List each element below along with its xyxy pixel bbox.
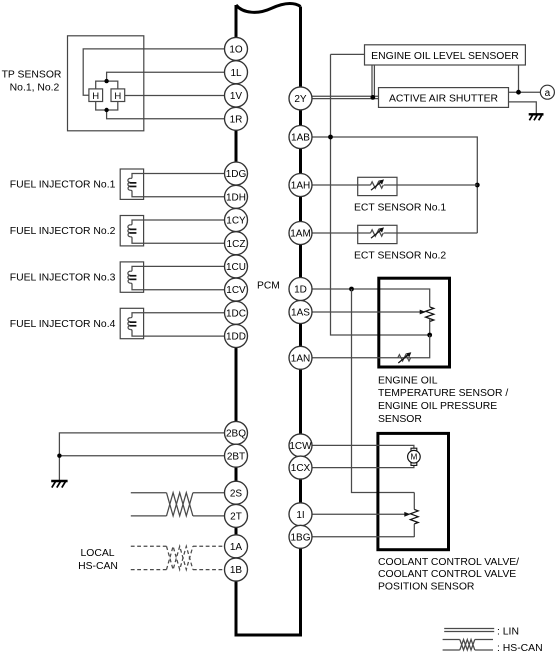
svg-text:1CZ: 1CZ bbox=[227, 239, 246, 250]
fuel injector No.2 box bbox=[120, 216, 143, 246]
PCM module body bbox=[235, 3, 303, 635]
wire engine oil level sensor left stub bbox=[331, 53, 365, 55]
hall element H No.1 bbox=[89, 89, 103, 102]
hall element H No.2 bbox=[111, 89, 125, 102]
svg-text:2Y: 2Y bbox=[294, 94, 307, 105]
svg-text:1AN: 1AN bbox=[291, 353, 310, 364]
pin 1D bbox=[289, 278, 312, 301]
svg-text:2T: 2T bbox=[230, 512, 242, 523]
pin 1L bbox=[225, 61, 248, 84]
wire 2BT to ground bbox=[59, 456, 224, 481]
svg-text:FUEL INJECTOR No.2: FUEL INJECTOR No.2 bbox=[10, 226, 116, 237]
svg-text:H: H bbox=[114, 91, 121, 102]
svg-text:: LIN: : LIN bbox=[497, 626, 519, 637]
motor M1 bbox=[408, 448, 421, 465]
pin 1B bbox=[225, 558, 248, 581]
svg-text:COOLANT CONTROL VALVE: COOLANT CONTROL VALVE bbox=[378, 569, 516, 580]
svg-text:1AB: 1AB bbox=[291, 133, 310, 144]
ground symbol left bbox=[51, 481, 67, 488]
ground symbol right bbox=[529, 114, 544, 120]
fuel injector No.1 box bbox=[120, 169, 143, 199]
svg-text:HS-CAN: HS-CAN bbox=[78, 561, 118, 572]
svg-text:TP SENSOR: TP SENSOR bbox=[2, 70, 62, 81]
wire 1V to TP sensor bbox=[125, 95, 225, 97]
svg-text:1R: 1R bbox=[230, 114, 243, 125]
pin 2T bbox=[225, 504, 248, 527]
pin 1AS bbox=[289, 301, 312, 324]
TP sensor box bbox=[68, 36, 144, 131]
svg-text:1CX: 1CX bbox=[291, 463, 311, 474]
pin 1AM bbox=[289, 222, 312, 245]
wire active air shutter to ground bbox=[509, 102, 537, 114]
legend LIN symbol bbox=[444, 626, 519, 637]
svg-text:FUEL INJECTOR No.3: FUEL INJECTOR No.3 bbox=[10, 273, 116, 284]
junction dot top rail bbox=[104, 79, 108, 83]
oil temperature thermistor RT3 bbox=[398, 352, 412, 363]
wire 1AN through oil temperature thermistor bbox=[312, 335, 430, 358]
pin 1CU bbox=[225, 255, 248, 278]
svg-text:FUEL INJECTOR No.4: FUEL INJECTOR No.4 bbox=[10, 319, 116, 330]
pin 1DD bbox=[225, 325, 248, 348]
oil pressure sensor element R3 bbox=[426, 307, 434, 335]
injector solenoid coil No.1 bbox=[128, 174, 225, 197]
svg-text:1CV: 1CV bbox=[226, 285, 246, 296]
wire 1BG to position sensor bottom bbox=[312, 536, 414, 538]
TP sensor top rail bbox=[96, 81, 118, 89]
wire 1I wiper arrow bbox=[312, 512, 411, 517]
svg-text:1DD: 1DD bbox=[226, 332, 246, 343]
svg-text:1D: 1D bbox=[294, 285, 307, 296]
node a bbox=[540, 85, 554, 99]
pin 1R bbox=[225, 107, 248, 130]
svg-text:ENGINE OIL PRESSURE: ENGINE OIL PRESSURE bbox=[378, 401, 497, 412]
svg-text:2S: 2S bbox=[230, 488, 243, 499]
svg-text:: HS-CAN: : HS-CAN bbox=[497, 643, 543, 653]
pin 1AH bbox=[289, 174, 312, 197]
svg-text:a: a bbox=[545, 88, 551, 99]
pin 1AB bbox=[289, 126, 312, 149]
TP sensor bottom rail bbox=[96, 102, 118, 111]
coolant control valve box bbox=[378, 433, 449, 549]
LIN bus double wire up to engine oil level sensor bbox=[372, 65, 374, 96]
svg-text:H: H bbox=[92, 91, 99, 102]
pin 2BQ bbox=[225, 421, 248, 444]
pin 1DH bbox=[225, 185, 248, 208]
svg-text:1AS: 1AS bbox=[291, 308, 310, 319]
fuel injector No.4 box bbox=[120, 308, 143, 338]
pin 2Y bbox=[289, 87, 312, 110]
label coolant control valve bbox=[378, 557, 519, 593]
svg-text:1O: 1O bbox=[229, 45, 243, 56]
pin 2S bbox=[225, 481, 248, 504]
wire 1O to TP sensor bbox=[83, 49, 224, 95]
junction dot 1AB bbox=[328, 135, 333, 140]
label TP SENSOR No.1, No.2 bbox=[2, 70, 62, 94]
ECT sensor No.1 thermistor RT1 bbox=[358, 177, 397, 195]
svg-text:FUEL INJECTOR No.1: FUEL INJECTOR No.1 bbox=[10, 180, 116, 191]
wire 1AB bbox=[312, 137, 477, 233]
svg-text:1B: 1B bbox=[230, 565, 243, 576]
svg-text:1CY: 1CY bbox=[226, 216, 246, 227]
junction dot node a wire bbox=[516, 90, 521, 95]
svg-text:1BG: 1BG bbox=[290, 532, 310, 543]
twisted pair wire 2S/2T (HS-CAN) bbox=[131, 493, 225, 516]
svg-text:1I: 1I bbox=[296, 510, 304, 521]
svg-text:1L: 1L bbox=[230, 68, 242, 79]
junction dot LIN bbox=[370, 95, 375, 100]
engine oil level sensor box bbox=[365, 45, 526, 65]
injector solenoid coil No.2 bbox=[128, 220, 225, 243]
pin 1DG bbox=[225, 162, 248, 185]
pin 1CW bbox=[289, 434, 312, 457]
wire 2BQ to ground branch bbox=[59, 433, 224, 456]
fuel injector No.3 box bbox=[120, 262, 143, 292]
LIN bus double wire from 2Y to active air shutter bbox=[312, 96, 379, 98]
injector solenoid coil No.4 bbox=[128, 313, 225, 336]
svg-text:1DC: 1DC bbox=[226, 308, 246, 319]
pin 1CX bbox=[289, 456, 312, 479]
wire 1CX to motor bbox=[312, 465, 414, 467]
wire engine oil level sensor to node a line bbox=[518, 65, 520, 92]
svg-text:M: M bbox=[410, 453, 417, 462]
svg-text:ECT SENSOR No.1: ECT SENSOR No.1 bbox=[354, 202, 446, 213]
wire 1AM through ECT sensor No.2 bbox=[312, 232, 477, 234]
svg-text:ECT SENSOR No.2: ECT SENSOR No.2 bbox=[354, 250, 446, 261]
pin 1AN bbox=[289, 346, 312, 369]
injector solenoid coil No.3 bbox=[128, 266, 225, 289]
legend HS-CAN symbol bbox=[443, 640, 543, 654]
svg-text:No.1, No.2: No.1, No.2 bbox=[10, 82, 60, 93]
svg-text:TEMPERATURE SENSOR /: TEMPERATURE SENSOR / bbox=[378, 388, 508, 399]
svg-text:ENGINE OIL LEVEL SENSOER: ENGINE OIL LEVEL SENSOER bbox=[371, 51, 519, 62]
svg-text:PCM: PCM bbox=[257, 281, 280, 292]
wire 1D junction down to coolant valve bbox=[352, 289, 415, 493]
svg-text:ENGINE OIL: ENGINE OIL bbox=[378, 375, 438, 386]
pin 1CZ bbox=[225, 232, 248, 255]
svg-text:POSITION SENSOR: POSITION SENSOR bbox=[378, 582, 475, 593]
wire active air shutter to node a bbox=[509, 91, 541, 93]
pin 1DC bbox=[225, 301, 248, 324]
svg-text:ACTIVE AIR SHUTTER: ACTIVE AIR SHUTTER bbox=[389, 94, 499, 105]
svg-text:1DH: 1DH bbox=[226, 192, 246, 203]
engine oil temperature/pressure sensor box bbox=[379, 278, 450, 367]
pin 1CY bbox=[225, 209, 248, 232]
svg-text:SENSOR: SENSOR bbox=[378, 414, 422, 425]
junction dot 2BT ground bbox=[57, 454, 61, 458]
pin 1CV bbox=[225, 278, 248, 301]
wire 1AH through ECT sensor No.1 bbox=[312, 184, 477, 186]
wire 1L to TP sensor top rail bbox=[107, 72, 225, 81]
svg-text:COOLANT CONTROL VALVE/: COOLANT CONTROL VALVE/ bbox=[378, 557, 519, 568]
active air shutter box bbox=[379, 88, 509, 108]
wire 1D to oil pressure sensor bbox=[312, 289, 430, 307]
svg-text:1CU: 1CU bbox=[226, 262, 246, 273]
svg-text:1AH: 1AH bbox=[291, 181, 310, 192]
svg-text:1A: 1A bbox=[230, 542, 243, 553]
label LOCAL HS-CAN bbox=[78, 548, 118, 572]
pin 1BG bbox=[289, 525, 312, 548]
svg-text:2BQ: 2BQ bbox=[226, 429, 246, 440]
junction dot pressure sensor bottom bbox=[427, 333, 432, 338]
junction dot bottom rail bbox=[104, 108, 108, 112]
svg-text:1DG: 1DG bbox=[226, 169, 247, 180]
coolant valve position sensor R4 bbox=[410, 493, 418, 538]
svg-text:1V: 1V bbox=[230, 91, 243, 102]
ECT sensor No.2 thermistor RT2 bbox=[358, 225, 397, 243]
wire 1AS wiper arrow bbox=[312, 310, 426, 315]
svg-text:1AM: 1AM bbox=[290, 229, 311, 240]
pin 1A bbox=[225, 535, 248, 558]
junction dot 1D bbox=[349, 287, 354, 292]
wire 1CW to motor bbox=[312, 445, 414, 448]
svg-text:LOCAL: LOCAL bbox=[80, 548, 114, 559]
pin 1I bbox=[289, 503, 312, 526]
wire sensor ground return vertical bbox=[331, 54, 430, 335]
pin 1O bbox=[225, 37, 248, 60]
svg-text:1CW: 1CW bbox=[289, 441, 312, 452]
label engine oil temperature/pressure sensor bbox=[378, 375, 508, 425]
pin 1V bbox=[225, 84, 248, 107]
wire 1R to TP sensor bottom rail bbox=[107, 110, 225, 119]
pin 2BT bbox=[225, 444, 248, 467]
junction dot ECT1 line bbox=[475, 183, 480, 188]
svg-text:2BT: 2BT bbox=[227, 451, 245, 462]
local HS-CAN dashed twisted pair 1A/1B bbox=[131, 546, 225, 569]
